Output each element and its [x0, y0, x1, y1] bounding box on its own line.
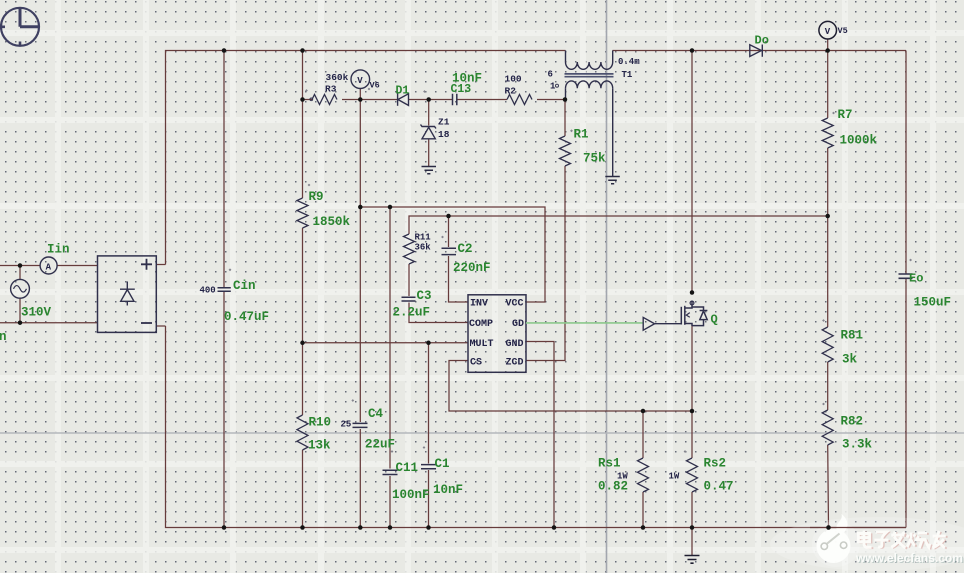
sheet divider horizontal [0, 432, 964, 434]
svg-text:18: 18 [438, 129, 450, 140]
resistor R7 [822, 118, 833, 148]
diode Do [750, 45, 763, 57]
svg-text:0.47: 0.47 [704, 480, 734, 494]
wire R9 R10 column [302, 51, 304, 528]
junction Cin bottom [222, 525, 227, 530]
svg-text:MULT: MULT [470, 339, 494, 350]
wire buffer to gate [655, 323, 682, 325]
wire bottom ground rail [166, 326, 907, 528]
svg-text:400: 400 [200, 286, 216, 296]
transistor Q MOSFET [681, 301, 707, 326]
wire R11 C3 column [409, 264, 468, 323]
svg-text:13k: 13k [308, 439, 331, 453]
svg-text:C11: C11 [396, 461, 419, 475]
svg-text:www.elecfans.com: www.elecfans.com [855, 551, 963, 565]
junction R82 bottom (over watermark) [826, 525, 831, 530]
watermark logo circle [817, 529, 851, 563]
capacitor C11 [383, 470, 398, 474]
svg-text:V: V [825, 27, 831, 37]
svg-text:C1: C1 [435, 457, 450, 471]
svg-text:Q: Q [711, 313, 718, 327]
junction C2 top [446, 214, 451, 219]
svg-text:D1: D1 [396, 85, 410, 98]
junction feedback node [358, 205, 363, 210]
wire GND pin drop [526, 342, 554, 528]
svg-text:R7: R7 [838, 108, 853, 122]
svg-text:ZCD: ZCD [506, 357, 524, 368]
transformer T1 [566, 51, 613, 177]
capacitor Eo [899, 274, 913, 278]
wire bridge - output stub [156, 325, 165, 327]
resistor R11 [404, 234, 415, 264]
wire Rs2 column [691, 411, 693, 528]
wire MOSFET source column [691, 326, 693, 411]
svg-text:360k: 360k [326, 72, 349, 83]
svg-text:1W: 1W [669, 472, 680, 482]
svg-text:V: V [357, 76, 363, 86]
junction V5 [825, 48, 830, 53]
wire row y99 R3 to T1 [303, 99, 566, 101]
wire bridge + output stub [156, 264, 165, 266]
svg-text:3k: 3k [842, 353, 858, 367]
junction AC top [18, 263, 23, 268]
wire C11 column [389, 207, 391, 528]
parameter markers [229, 88, 912, 453]
svg-text:36k: 36k [415, 243, 432, 253]
svg-text:R81: R81 [841, 329, 864, 343]
svg-text:3.3k: 3.3k [842, 438, 873, 452]
svg-text:Rs2: Rs2 [704, 457, 727, 471]
svg-text:R3: R3 [325, 84, 337, 95]
capacitor C2 [442, 248, 457, 254]
watermark elecfans [770, 514, 964, 571]
wire over watermark [810, 527, 906, 529]
junction drain node [690, 290, 695, 295]
svg-text:V6: V6 [370, 81, 380, 91]
wire AC input top [0, 265, 98, 267]
capacitor C4 [353, 423, 368, 427]
capacitor Cin [218, 288, 231, 291]
svg-text:C2: C2 [458, 242, 473, 256]
wire T1 pin1 to R1 to ZCD [526, 100, 565, 361]
svg-text:0.82: 0.82 [598, 480, 628, 494]
ammeter Iin [40, 257, 57, 274]
junction R9 top [300, 48, 305, 53]
svg-text:0.4m: 0.4m [618, 57, 640, 67]
wire Z1 column [428, 100, 430, 167]
wire R7 R81 R82 column [827, 51, 830, 528]
wire Rs1 column [642, 411, 644, 528]
svg-text:310V: 310V [21, 306, 52, 320]
ground (Z1) [422, 167, 437, 174]
junction Rs2 top [690, 409, 695, 414]
diode D1 [398, 94, 409, 106]
junction D1 Z1 C13 [426, 97, 431, 102]
svg-text:10nF: 10nF [433, 483, 463, 497]
svg-text:C4: C4 [368, 407, 384, 421]
wire V5 stub [827, 39, 829, 50]
svg-text:V5: V5 [838, 26, 848, 36]
junction mult rail right [825, 214, 830, 219]
wire MULT rail y342.8 [303, 342, 469, 344]
ground (T1) [605, 177, 620, 184]
svg-text:Iin: Iin [47, 243, 70, 257]
resistor Rs2 [687, 458, 698, 492]
junction Rs1 top [641, 409, 646, 414]
junction AC bottom [18, 320, 23, 325]
junction MULT left [300, 341, 305, 346]
svg-text:R11: R11 [415, 233, 432, 243]
wire V6 stub [359, 88, 361, 99]
svg-text:0.47uF: 0.47uF [224, 310, 269, 324]
resistor Rs1 [638, 458, 649, 492]
svg-text:CS: CS [470, 357, 482, 368]
svg-text:R1: R1 [574, 128, 589, 142]
svg-text:6: 6 [548, 70, 553, 80]
capacitor C13 [453, 94, 457, 106]
junction C11 bottom [388, 525, 393, 530]
sheet divider vertical [606, 0, 608, 573]
svg-text:22uF: 22uF [365, 438, 395, 452]
junction R82 bottom [826, 525, 831, 530]
wire source ground stub [691, 528, 693, 556]
buffer gate driver [643, 317, 654, 330]
svg-text:75k: 75k [583, 152, 606, 166]
resistor R81 [822, 327, 833, 362]
svg-text:100nF: 100nF [392, 488, 430, 502]
svg-text:C3: C3 [417, 289, 432, 303]
resistor R1 [560, 136, 571, 166]
junction C11 top [388, 205, 393, 210]
svg-text:R2: R2 [505, 86, 517, 97]
svg-text:R9: R9 [309, 190, 324, 204]
svg-text:Cin: Cin [233, 279, 256, 293]
svg-text:1000k: 1000k [840, 134, 878, 148]
wire AC input bottom [0, 322, 98, 324]
junction C1 top [426, 341, 431, 346]
wire AC source column [19, 266, 21, 323]
svg-text:C13: C13 [451, 83, 472, 96]
resistor R3 [312, 95, 337, 105]
wire right edge Eo column [905, 51, 907, 528]
junction C1 bottom [426, 525, 431, 530]
resistor R82 [822, 410, 833, 445]
wire V6 to C4 column [359, 100, 361, 528]
resistor R10 [297, 415, 308, 450]
svg-text:VCC: VCC [506, 299, 524, 310]
zener Z1 [421, 125, 437, 139]
svg-text:COMP: COMP [469, 319, 493, 330]
wire H y216 multiplier rail [409, 216, 828, 234]
svg-text:n: n [0, 330, 7, 344]
svg-text:220nF: 220nF [453, 261, 491, 275]
svg-text:A: A [46, 262, 52, 272]
resistor R9 [297, 198, 308, 228]
wire MOSFET drain column [691, 51, 693, 293]
junction R2 T1 R1 [563, 97, 568, 102]
wire C1 column [428, 343, 430, 528]
wire top rail right (T1 to output) [613, 50, 907, 52]
svg-text:R10: R10 [309, 416, 332, 430]
svg-text:Eo: Eo [909, 272, 923, 286]
wire node V6 feedback H y207 [360, 207, 545, 302]
svg-text:GD: GD [512, 319, 524, 330]
wire top rail left (node after bridge +) [166, 51, 566, 265]
resistor R2 [507, 95, 532, 105]
svg-text:150uF: 150uF [914, 296, 952, 310]
svg-text:1850k: 1850k [313, 215, 351, 229]
voltmeter V6 [351, 70, 370, 89]
svg-text:Do: Do [755, 34, 769, 48]
svg-text:1W: 1W [617, 472, 628, 482]
svg-text:Z1: Z1 [438, 117, 450, 128]
svg-text:25: 25 [341, 420, 352, 430]
junction Rs2 bottom [690, 525, 695, 530]
wire gate drive (green) [526, 322, 643, 324]
wire C2 column to INV [449, 216, 469, 302]
svg-text:T1: T1 [622, 70, 633, 80]
junction drain top [690, 48, 695, 53]
voltmeter V5 [819, 21, 837, 39]
clock icon [1, 8, 40, 46]
junction R3 left [300, 97, 305, 102]
junction R10 bottom [300, 525, 305, 530]
junction V6 bottom [358, 97, 363, 102]
capacitor C1 [421, 465, 436, 469]
junction GND bottom [552, 525, 557, 530]
svg-text:Rs1: Rs1 [598, 457, 621, 471]
wire Cin column [223, 51, 225, 528]
junction C4 bottom [358, 525, 363, 530]
wire CS loop to sense resistors [449, 361, 692, 412]
bridge rectifier [98, 256, 157, 333]
junction Rs1 bottom [641, 525, 646, 530]
capacitor C3 [402, 297, 416, 301]
op-amp U1 PFC controller box [468, 295, 526, 373]
ground (MOSFET source) [685, 556, 700, 564]
svg-text:100: 100 [505, 74, 522, 85]
svg-text:GND: GND [506, 339, 524, 350]
source Vin AC [11, 279, 30, 298]
svg-text:2.2uF: 2.2uF [393, 306, 431, 320]
junction Cin top [222, 48, 227, 53]
svg-text:1: 1 [550, 82, 556, 92]
watermark text 电子发烧友 (hand-drawn strokes) [860, 531, 947, 548]
svg-text:R82: R82 [841, 415, 864, 429]
svg-text:INV: INV [470, 299, 488, 310]
